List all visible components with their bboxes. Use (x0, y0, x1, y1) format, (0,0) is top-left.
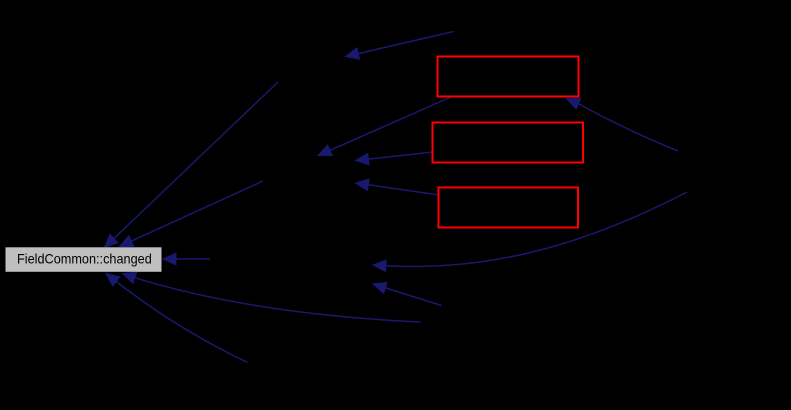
node red-box-2 (caller, truncated graph) (433, 123, 584, 163)
wire edge red-box-3 -> mid node (356, 179, 440, 195)
node red-box-3 (caller, truncated graph) (439, 188, 579, 228)
wire edge caller->FieldCommon::changed (top shallow) (120, 181, 264, 247)
wire curved edge bottom caller -> FieldCommon::changed (123, 272, 421, 322)
wire edge caller->FieldCommon::changed (right horizontal) (163, 253, 210, 265)
wire edge caller->FieldCommon::changed (top steep) (105, 82, 279, 248)
wire curved edge right caller -> red-box-1 (567, 98, 679, 151)
node red-box-1 (caller, truncated graph) (438, 57, 579, 97)
wire edge top caller -> top-left node (346, 32, 454, 60)
wire edge red-box-1 -> mid node (318, 97, 451, 156)
node FieldCommon::changed (current) (6, 247, 162, 271)
wire edge red-box-2 -> mid node (356, 152, 434, 165)
wire curved edge right caller -> mid node (373, 192, 687, 272)
wire edge lower caller -> mid node (373, 282, 442, 305)
svg-text:FieldCommon::changed: FieldCommon::changed (17, 250, 152, 266)
wire edge caller->FieldCommon::changed (bottom steep) (106, 274, 248, 363)
